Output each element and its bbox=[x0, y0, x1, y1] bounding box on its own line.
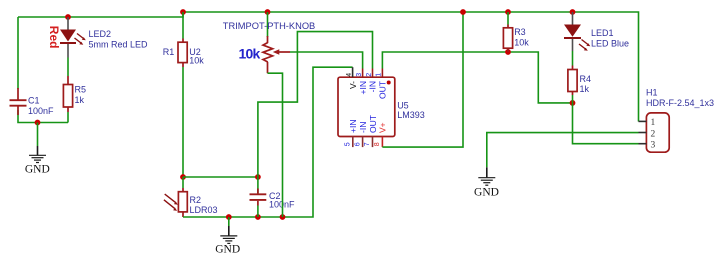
wire GND to header pin2 bbox=[487, 133, 639, 168]
svg-text:Red: Red bbox=[47, 26, 61, 49]
trimpot R? TRIMPOT-PTH-KNOB 10k bbox=[223, 12, 315, 73]
junction dot divider node right (C2 top) bbox=[255, 174, 261, 180]
svg-text:R5: R5 bbox=[75, 85, 87, 95]
svg-text:H1: H1 bbox=[646, 88, 658, 98]
junction dot OUT at R3 bbox=[505, 49, 511, 55]
wire R5 bottom bbox=[67, 112, 69, 123]
ground GND (left) bbox=[25, 123, 50, 176]
wire R1 top bbox=[182, 12, 184, 39]
capacitor C2 bbox=[250, 177, 296, 217]
svg-text:LED Blue: LED Blue bbox=[591, 39, 629, 49]
junction dot left GND bbox=[35, 120, 41, 126]
U5 pin 1 (OUT) bbox=[376, 69, 388, 99]
U5 pin 6 (-IN) bbox=[354, 122, 368, 147]
resistor R5 1k bbox=[63, 76, 86, 112]
svg-text:R2: R2 bbox=[190, 195, 202, 205]
wire trimpot wiper to U5 pin3 bbox=[290, 52, 363, 69]
wire bottom GND rail bbox=[183, 67, 353, 217]
svg-text:+IN: +IN bbox=[348, 120, 358, 133]
svg-text:R3: R3 bbox=[514, 27, 526, 37]
svg-text:8: 8 bbox=[374, 142, 381, 146]
svg-text:LED2: LED2 bbox=[89, 29, 112, 39]
svg-text:10k: 10k bbox=[239, 46, 261, 62]
svg-text:+IN: +IN bbox=[358, 81, 368, 94]
wire R4 bottom to OUT dot bbox=[572, 95, 574, 103]
svg-text:GND: GND bbox=[25, 164, 50, 176]
svg-text:V+: V+ bbox=[378, 122, 388, 133]
resistor R4 1k bbox=[568, 66, 591, 96]
wire U5 pin8 V+ to top bus bbox=[382, 12, 463, 147]
junction dot LED1 top bbox=[570, 9, 576, 15]
resistor R1 (U2 10k) bbox=[163, 39, 205, 68]
svg-text:10k: 10k bbox=[189, 56, 204, 66]
LED D1 (LED1, LED Blue) bbox=[564, 12, 629, 51]
junction dot OUT at R4 bottom bbox=[570, 100, 576, 106]
connector H1 HDR-F-2.54_1x3 bbox=[639, 88, 715, 153]
junction dot trimpot top bbox=[265, 9, 271, 15]
wire OUT to header pin3 bbox=[573, 103, 639, 144]
svg-text:LDR03: LDR03 bbox=[190, 205, 218, 215]
junction dot V+ at R1 bbox=[180, 9, 186, 15]
svg-text:7: 7 bbox=[364, 142, 371, 146]
junction dot divider node left bbox=[180, 174, 186, 180]
wire U5 pin1 OUT net bbox=[382, 52, 572, 103]
svg-text:-IN: -IN bbox=[368, 81, 378, 92]
junction dot V+ riser bbox=[460, 9, 466, 15]
junction dot GND rail at C2 bbox=[255, 214, 261, 220]
svg-text:5mm Red LED: 5mm Red LED bbox=[89, 40, 149, 50]
LED D2 (LED2, 5mm Red LED) bbox=[47, 17, 148, 58]
svg-text:R1: R1 bbox=[163, 47, 175, 57]
U5 pin 2 (-IN) bbox=[366, 69, 378, 93]
wire LED1 to R4 bbox=[572, 51, 574, 66]
svg-text:5: 5 bbox=[345, 142, 352, 146]
svg-text:V-: V- bbox=[348, 81, 358, 89]
wire top-left V+ segment bbox=[18, 12, 639, 122]
junction dot GND rail at GND symbol bbox=[226, 214, 232, 220]
resistor R3 10k bbox=[503, 12, 529, 52]
wire divider node to U5 pin2 bbox=[258, 32, 373, 177]
svg-text:GND: GND bbox=[215, 244, 240, 256]
svg-text:3: 3 bbox=[356, 73, 363, 77]
U5 pin 3 (+IN) bbox=[356, 69, 368, 95]
wire left edge down to C1 bbox=[17, 17, 19, 89]
svg-text:R4: R4 bbox=[580, 74, 592, 84]
svg-text:10k: 10k bbox=[514, 38, 529, 48]
svg-text:OUT: OUT bbox=[378, 81, 388, 99]
svg-text:1: 1 bbox=[651, 118, 656, 128]
svg-text:100nF: 100nF bbox=[28, 106, 54, 116]
photoresistor R2 LDR03 bbox=[164, 188, 218, 217]
wire C1 bottom to GND rail bottom-left bbox=[18, 110, 68, 123]
junction dot GND rail at trimpot return bbox=[280, 214, 286, 220]
U5 pin 8 (V+) bbox=[374, 122, 388, 147]
U5 pin 5 (+IN) bbox=[345, 120, 359, 148]
svg-text:1k: 1k bbox=[580, 84, 590, 94]
svg-text:TRIMPOT-PTH-KNOB: TRIMPOT-PTH-KNOB bbox=[223, 21, 315, 31]
ground GND (middle) bbox=[215, 217, 240, 256]
wire trimpot bottom to GND rail bbox=[268, 73, 283, 217]
svg-text:2: 2 bbox=[366, 73, 373, 77]
junction dot LED2 top bbox=[65, 14, 71, 20]
wire R1 bottom to node bbox=[182, 67, 184, 177]
svg-text:HDR-F-2.54_1x3: HDR-F-2.54_1x3 bbox=[646, 98, 714, 108]
svg-text:1: 1 bbox=[376, 73, 383, 77]
svg-text:U5: U5 bbox=[397, 101, 409, 111]
wire divider node bbox=[183, 176, 258, 178]
wire LED2 to R5 bbox=[67, 58, 69, 77]
ground GND (right) bbox=[474, 167, 499, 198]
svg-text:C1: C1 bbox=[28, 96, 40, 106]
U5 pin 4 (V-) bbox=[346, 67, 358, 89]
svg-text:LED1: LED1 bbox=[591, 28, 614, 38]
svg-text:LM393: LM393 bbox=[397, 110, 425, 120]
svg-text:1k: 1k bbox=[75, 95, 85, 105]
wire R2 top bbox=[182, 177, 184, 188]
svg-text:GND: GND bbox=[474, 187, 499, 199]
svg-text:3: 3 bbox=[651, 141, 656, 151]
svg-text:6: 6 bbox=[354, 142, 361, 146]
svg-text:4: 4 bbox=[346, 73, 353, 77]
U5 pin 7 (OUT) bbox=[364, 115, 378, 147]
junction dot R3 top bbox=[505, 9, 511, 15]
svg-text:OUT: OUT bbox=[368, 115, 378, 133]
op-amp U5 LM393 body bbox=[338, 77, 425, 136]
svg-text:-IN: -IN bbox=[358, 122, 368, 133]
svg-text:2: 2 bbox=[651, 129, 656, 139]
capacitor C1 bbox=[10, 88, 55, 116]
